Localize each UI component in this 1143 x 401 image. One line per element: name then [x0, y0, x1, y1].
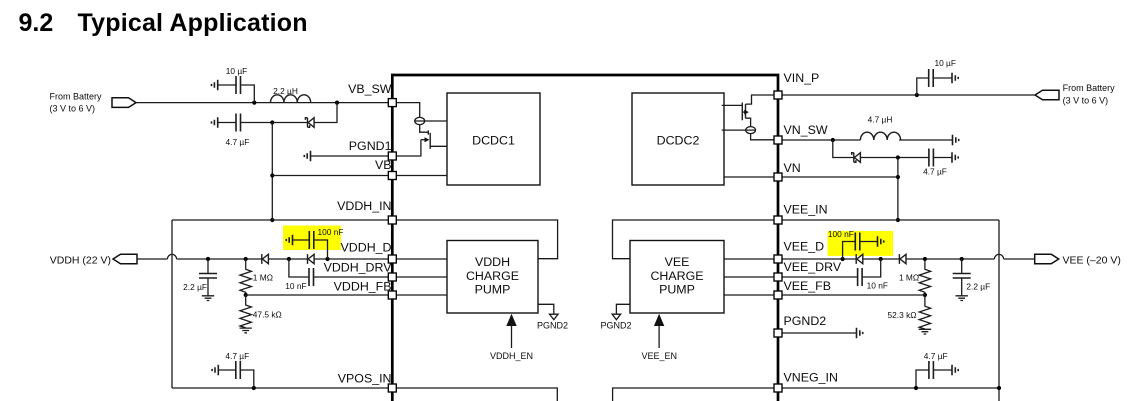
- connector J3 From Battery (right): [1035, 83, 1115, 106]
- ground for L2: [953, 135, 959, 145]
- block VEE charge pump: [630, 241, 724, 314]
- node C11 tap: [960, 257, 964, 261]
- wire VNEG_IN: [782, 387, 999, 389]
- transistor Q1 sense ellipse: [415, 117, 447, 124]
- svg-text:VPOS_IN: VPOS_IN: [338, 372, 392, 386]
- svg-text:DCDC2: DCDC2: [657, 134, 700, 148]
- node diode riser junction: [335, 101, 339, 105]
- capacitor C8 4.7uF: [923, 149, 947, 177]
- node VN junction: [896, 175, 900, 179]
- wire C5 stub: [293, 240, 328, 259]
- wire VDDH_IN internal route: [392, 220, 557, 259]
- node VB junction: [270, 173, 274, 177]
- wire VB internal: [392, 175, 447, 177]
- wire VEE_IN internal route: [613, 220, 779, 259]
- wire VEE_DRV internal: [724, 276, 778, 278]
- svg-text:1 MΩ: 1 MΩ: [899, 273, 919, 283]
- svg-text:From Battery: From Battery: [50, 92, 103, 102]
- node C2/diode junction: [270, 120, 274, 124]
- svg-text:PGND1: PGND1: [349, 139, 392, 153]
- capacitor C2 4.7uF: [225, 114, 249, 148]
- pin VEE_IN: [774, 216, 782, 224]
- svg-text:4.7 µH: 4.7 µH: [868, 114, 893, 124]
- wire C1 stub: [218, 85, 255, 103]
- pin VNEG_IN: [774, 384, 782, 392]
- node battery/10uF junction: [252, 101, 256, 105]
- svg-text:PUMP: PUMP: [659, 283, 695, 297]
- wire VEE_FB external: [782, 294, 925, 296]
- svg-text:VN: VN: [784, 161, 801, 175]
- highlight right 100nF: [828, 231, 894, 256]
- pin VEE_D: [774, 255, 782, 263]
- transistor Q2 sense ellipse: [722, 127, 756, 134]
- svg-text:2.2 µH: 2.2 µH: [273, 86, 298, 96]
- node VDDH_EN control arrow: [490, 314, 533, 361]
- node VNEG junction: [914, 386, 918, 390]
- svg-text:2.2 µF: 2.2 µF: [966, 281, 990, 291]
- wire 10nF drop: [289, 259, 309, 277]
- transistor Q1 mosfet: [392, 125, 447, 156]
- svg-text:VEE_IN: VEE_IN: [784, 202, 828, 216]
- wire VDDH_DRV internal: [392, 276, 447, 278]
- wire hop over box edge: [167, 254, 176, 259]
- wire VDDH to hop: [137, 258, 168, 260]
- wire VDDH_D row: [177, 258, 390, 260]
- ground for C11: [956, 296, 968, 301]
- block DCDC1: [447, 93, 540, 185]
- wire VEE_D row: [782, 258, 994, 260]
- node VEE_IN junction: [896, 218, 900, 222]
- wire right battery net vertical: [897, 158, 899, 221]
- svg-text:2.2 µF: 2.2 µF: [183, 282, 207, 292]
- node feedback junction: [244, 293, 248, 297]
- svg-text:100 nF: 100 nF: [318, 227, 344, 237]
- svg-text:VIN_P: VIN_P: [784, 71, 820, 85]
- svg-text:1 MΩ: 1 MΩ: [253, 273, 273, 283]
- pin PGND2: [774, 329, 782, 337]
- resistor R2 47.5k: [240, 295, 282, 328]
- svg-text:VDDH_DRV: VDDH_DRV: [324, 261, 393, 275]
- block VDDH charge pump: [447, 241, 538, 314]
- svg-text:VDDH: VDDH: [475, 255, 510, 269]
- pin VIN_P: [774, 91, 782, 99]
- svg-text:PGND2: PGND2: [537, 320, 568, 330]
- node C9 drop junction: [841, 257, 845, 261]
- wire VN_SW row: [782, 139, 953, 141]
- svg-text:PGND2: PGND2: [600, 320, 631, 330]
- svg-text:52.3 kΩ: 52.3 kΩ: [888, 310, 917, 320]
- wire D4 to C8: [860, 157, 952, 159]
- ground PGND2 stub of VEE pump: [600, 304, 631, 330]
- pin VPOS_IN: [388, 384, 396, 392]
- wire VN_SW to D4 row: [833, 140, 854, 158]
- wire VN_SW internal: [751, 134, 778, 140]
- svg-text:47.5 kΩ: 47.5 kΩ: [253, 309, 282, 319]
- diode D3 schottky: [308, 254, 315, 264]
- capacitor C10 10nF: [858, 268, 888, 291]
- pin VB_SW: [388, 99, 396, 107]
- inductor L1 2.2uH: [271, 86, 311, 103]
- svg-text:DCDC1: DCDC1: [472, 134, 515, 148]
- svg-text:(3 V to 6 V): (3 V to 6 V): [1063, 96, 1109, 106]
- svg-text:VDDH_D: VDDH_D: [341, 241, 392, 255]
- ground for C9: [878, 236, 884, 246]
- wire C2 node to D1: [272, 122, 307, 124]
- pin VDDH_IN: [388, 216, 396, 224]
- pin VDDH_D: [388, 255, 396, 263]
- diode D4 schottky: [852, 153, 861, 163]
- ground for C1: [212, 80, 218, 90]
- wire VB_SW internal: [392, 103, 419, 118]
- wire VPOS_IN: [172, 387, 390, 389]
- ground for C8: [952, 152, 958, 162]
- ground for C6: [212, 365, 218, 375]
- resistor R3 1M: [899, 260, 931, 296]
- wire battery to VB_SW: [136, 102, 390, 104]
- svg-text:VEE_FB: VEE_FB: [784, 279, 832, 293]
- capacitor C11 2.2uF: [953, 259, 991, 296]
- svg-text:VDDH_FB: VDDH_FB: [334, 279, 392, 293]
- wire hop right box edge: [994, 254, 1003, 259]
- ground for C12: [952, 365, 958, 375]
- capacitor C1 10uF: [226, 66, 248, 94]
- inductor L2 4.7uH: [860, 114, 900, 140]
- wire VN internal: [724, 176, 778, 178]
- node D2/D3 junction: [287, 257, 291, 261]
- svg-text:4.7 µF: 4.7 µF: [923, 167, 947, 177]
- svg-text:4.7 µF: 4.7 µF: [924, 351, 948, 361]
- node 100nF drop junction: [325, 257, 329, 261]
- svg-text:(3 V to 6 V): (3 V to 6 V): [50, 104, 96, 114]
- MAIN-IC outline U1: [392, 75, 778, 401]
- svg-text:CHARGE: CHARGE: [466, 269, 519, 283]
- capacitor C3 2.2uF: [183, 259, 217, 296]
- node VDDH_IN junction: [270, 218, 274, 222]
- ground PGND2 pin stub: [782, 328, 863, 338]
- pin VDDH_FB: [388, 291, 396, 299]
- svg-text:From Battery: From Battery: [1063, 83, 1116, 93]
- wire C2 stub: [218, 122, 273, 124]
- svg-text:VEE_D: VEE_D: [784, 239, 825, 253]
- node right feedback junction: [923, 293, 927, 297]
- node VIN_P/10uF junction: [915, 93, 919, 97]
- wire VDDH_FB: [246, 294, 390, 296]
- wire 10nF drop right: [862, 259, 881, 277]
- pin VEE_FB: [774, 291, 782, 299]
- svg-text:10 nF: 10 nF: [285, 281, 306, 291]
- wire VDDH_D internal: [392, 258, 447, 260]
- wire hop to VEE connector: [1004, 258, 1036, 260]
- ground PGND1: [304, 151, 310, 161]
- node D5/D6 junction: [879, 257, 883, 261]
- node 1M tap: [244, 257, 248, 261]
- connector J1 From Battery (left): [50, 92, 137, 114]
- ground for C5: [286, 235, 292, 245]
- svg-text:10 nF: 10 nF: [867, 281, 888, 291]
- connector J2 VDDH output: [50, 254, 137, 266]
- ground for C2: [212, 117, 218, 127]
- svg-text:100 nF: 100 nF: [828, 229, 854, 239]
- wire VIN_P to battery: [782, 94, 1035, 96]
- svg-text:VB_SW: VB_SW: [348, 82, 392, 96]
- svg-text:VDDH_IN: VDDH_IN: [337, 199, 391, 213]
- pin VN: [774, 173, 782, 181]
- pin PGND1: [388, 152, 396, 160]
- transistor Q2 mosfet: [722, 103, 751, 127]
- capacitor C5 100nF highlighted: [309, 227, 343, 249]
- diode D6 schottky: [899, 254, 906, 264]
- pin VB: [388, 172, 396, 180]
- wire D1 to VB_SW riser: [314, 103, 337, 123]
- wire VEE_IN: [782, 219, 999, 221]
- ground for R2: [240, 328, 252, 333]
- wire C6 stub: [218, 370, 254, 388]
- wire right outer box: [998, 220, 1000, 401]
- capacitor C12 4.7uF: [924, 351, 948, 379]
- ground for C7: [952, 73, 958, 83]
- wire VDDH_FB internal: [392, 294, 447, 296]
- wire PGND1 stub: [311, 155, 391, 157]
- svg-text:VEE_EN: VEE_EN: [642, 351, 678, 361]
- wire VEE_D internal: [724, 258, 778, 260]
- diode D2 schottky: [262, 254, 269, 264]
- wire C7 stub: [917, 78, 952, 95]
- node VPOS junction: [252, 386, 256, 390]
- node R3 tap: [923, 257, 927, 261]
- svg-text:VDDH_EN: VDDH_EN: [490, 351, 533, 361]
- pin VDDH_DRV: [388, 273, 396, 281]
- wire battery net vertical: [271, 123, 273, 221]
- svg-text:CHARGE: CHARGE: [650, 269, 703, 283]
- ground for C3: [202, 296, 214, 301]
- pin VEE_DRV: [774, 273, 782, 281]
- svg-text:PGND2: PGND2: [784, 314, 827, 328]
- svg-text:4.7 µF: 4.7 µF: [225, 137, 249, 147]
- svg-text:VDDH (22 V): VDDH (22 V): [50, 255, 111, 267]
- svg-text:9.2Typical Application: 9.2Typical Application: [19, 9, 308, 37]
- svg-text:VNEG_IN: VNEG_IN: [784, 371, 838, 385]
- capacitor C7 10uF: [929, 58, 956, 87]
- ground for R4: [919, 329, 931, 334]
- capacitor C6 4.7uF: [225, 351, 249, 379]
- node 2.2uF tap: [206, 257, 210, 261]
- connector J4 VEE output: [1035, 254, 1121, 266]
- capacitor C4 10nF: [285, 268, 313, 291]
- svg-text:VEE: VEE: [665, 255, 690, 269]
- wire VNEG_IN internal route: [613, 388, 778, 401]
- wire VPOS_IN internal route: [392, 388, 557, 401]
- svg-text:PUMP: PUMP: [475, 283, 511, 297]
- capacitor C9 100nF highlighted: [828, 229, 860, 250]
- resistor R4 52.3k: [888, 296, 931, 329]
- wire VN external: [782, 176, 898, 178]
- wire VDDH_DRV: [314, 276, 391, 278]
- ground PGND2 stub of VDDH pump: [537, 304, 568, 330]
- svg-text:4.7 µF: 4.7 µF: [225, 351, 249, 361]
- wire VEE_DRV external: [782, 276, 858, 278]
- wire VEE_FB internal: [724, 294, 778, 296]
- wire VDDH_IN: [172, 219, 390, 221]
- diode D5 schottky: [856, 254, 863, 264]
- node D4/C8 junction: [896, 155, 900, 159]
- diode D1 schottky: [305, 118, 314, 128]
- svg-text:VEE_DRV: VEE_DRV: [784, 260, 842, 274]
- svg-text:VN_SW: VN_SW: [784, 123, 828, 137]
- block DCDC2: [632, 93, 724, 185]
- svg-text:VEE (–20 V): VEE (–20 V): [1063, 255, 1121, 267]
- svg-text:10 µF: 10 µF: [226, 66, 248, 76]
- pin VN_SW: [774, 136, 782, 144]
- wire C9 stub: [843, 242, 878, 260]
- node VN_SW junction: [831, 138, 835, 142]
- wire VIN_P internal: [746, 95, 779, 104]
- highlight left 100nF: [283, 226, 341, 251]
- svg-text:10 µF: 10 µF: [934, 58, 956, 68]
- resistor R1 1M: [240, 260, 273, 296]
- wire left outer box: [171, 220, 173, 388]
- node VEE_EN control arrow: [642, 314, 678, 361]
- wire VB: [272, 175, 390, 177]
- wire C12 stub: [916, 370, 952, 388]
- node outer box corner junction: [997, 386, 1001, 390]
